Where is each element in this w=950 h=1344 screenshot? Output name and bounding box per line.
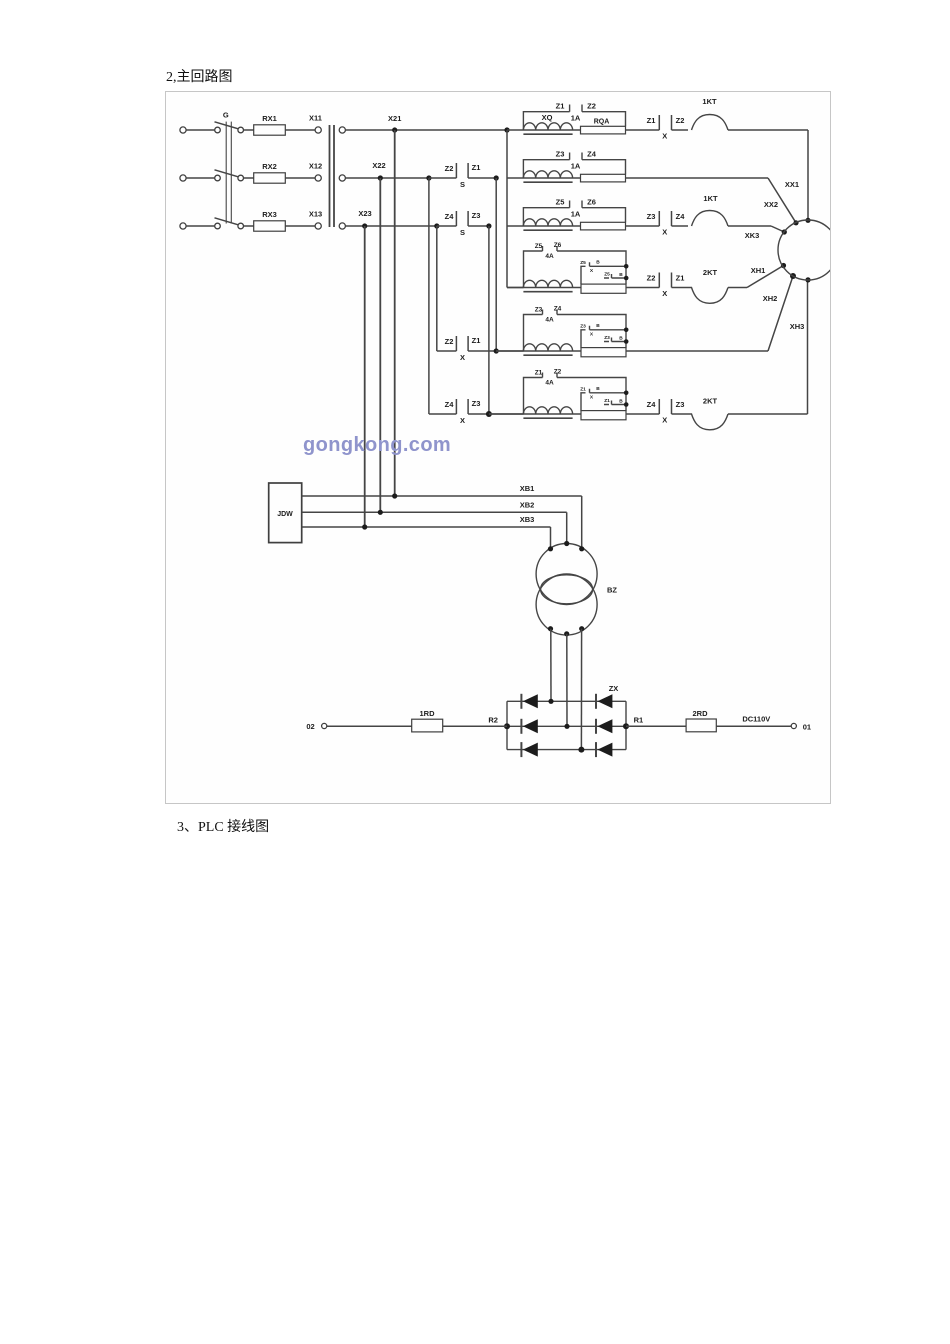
node R1 <box>623 723 629 729</box>
svg-text:Z1: Z1 <box>580 387 586 393</box>
svg-text:BZ: BZ <box>607 586 617 595</box>
node BZ b1 <box>548 626 553 631</box>
contact Z2/Z1 S <box>426 175 431 180</box>
wire <box>626 177 769 179</box>
transformer BZ <box>536 544 597 605</box>
svg-text:Z2: Z2 <box>445 164 454 173</box>
svg-text:Z1: Z1 <box>647 116 656 125</box>
wire <box>626 129 660 131</box>
wire <box>186 129 214 131</box>
node relay5 a <box>624 328 629 333</box>
wire <box>728 225 771 227</box>
switch contact 1 <box>238 127 244 133</box>
contact Z3/Z4 X row3 <box>658 211 660 226</box>
wire <box>285 177 315 179</box>
wire <box>626 225 660 227</box>
svg-text:1A: 1A <box>571 162 581 171</box>
node BZ b3 <box>579 626 584 631</box>
contact Z1/Z2 X row1 <box>658 115 660 130</box>
thermal element 1KT row3 <box>692 211 729 227</box>
terminal X22 <box>339 175 345 181</box>
svg-text:Z3: Z3 <box>647 212 656 221</box>
svg-text:Z3: Z3 <box>472 211 481 220</box>
contact Z4/Z3 X row6 <box>429 413 457 415</box>
wire XH2 diagonal <box>768 276 793 351</box>
wire <box>285 129 315 131</box>
svg-text:Z4: Z4 <box>445 400 455 409</box>
svg-text:RQA: RQA <box>594 119 610 126</box>
node relay5 b <box>624 339 629 344</box>
node motor XH3 <box>805 277 810 282</box>
wire <box>327 725 412 727</box>
wire row6 feed <box>489 413 524 415</box>
node motor XH1 <box>781 263 786 268</box>
wire <box>626 725 686 727</box>
svg-text:Z2: Z2 <box>554 369 562 376</box>
node BZ t1 <box>548 546 553 551</box>
switch hinge 2 <box>215 175 221 181</box>
svg-text:X: X <box>590 268 594 274</box>
winding V1 bypass+reactor <box>523 153 625 179</box>
svg-text:Z2: Z2 <box>587 102 596 111</box>
svg-text:B: B <box>596 386 600 392</box>
thermal element 2KT row6 <box>672 414 729 430</box>
node BZ b2 <box>564 631 569 636</box>
wire <box>626 413 659 415</box>
wire vert A (row2->row6) <box>428 178 430 414</box>
svg-text:Z3: Z3 <box>604 335 610 341</box>
wire <box>626 350 768 352</box>
node motor XX2 <box>793 220 798 225</box>
svg-text:1A: 1A <box>571 210 581 219</box>
motor M <box>778 220 838 280</box>
switch G blade 2 <box>215 170 239 177</box>
node relay6 a <box>624 391 629 396</box>
bridge frame <box>507 701 626 749</box>
svg-text:X12: X12 <box>309 161 322 170</box>
diode D-right-bot <box>598 743 613 757</box>
switch G linkage <box>225 122 227 224</box>
winding W1 bypass+reactor <box>523 201 625 227</box>
svg-text:XX1: XX1 <box>785 180 799 189</box>
svg-text:RX1: RX1 <box>262 114 277 123</box>
fuse 1RD <box>412 719 443 732</box>
svg-text:Z1: Z1 <box>472 163 481 172</box>
wire <box>285 225 315 227</box>
node relay4 b <box>624 276 629 281</box>
node XB3-X23 <box>362 524 367 529</box>
svg-text:R2: R2 <box>488 716 498 725</box>
node BZ t2 <box>564 541 569 546</box>
terminal L3 <box>180 223 186 229</box>
svg-text:XK3: XK3 <box>745 231 760 240</box>
diode D-right-top <box>598 694 613 708</box>
wire row2 <box>346 177 429 179</box>
svg-text:XH1: XH1 <box>751 266 766 275</box>
svg-text:1A: 1A <box>571 114 581 123</box>
wire <box>186 177 214 179</box>
svg-text:Z3: Z3 <box>580 324 586 330</box>
wire XH1 diagonal <box>728 287 747 289</box>
svg-text:X22: X22 <box>372 161 385 170</box>
svg-text:4A: 4A <box>545 253 554 260</box>
svg-text:4A: 4A <box>545 317 554 324</box>
node bridge bot <box>578 747 584 753</box>
svg-text:02: 02 <box>306 722 314 731</box>
contact Z2/Z1 X row5 <box>437 350 457 352</box>
svg-text:G: G <box>223 111 229 120</box>
svg-text:4A: 4A <box>545 380 554 387</box>
node relay4 a <box>624 264 629 269</box>
wire <box>566 512 568 543</box>
svg-text:Z5: Z5 <box>604 272 610 278</box>
svg-text:S: S <box>460 228 465 237</box>
node row5 left <box>494 348 499 353</box>
svg-text:XH3: XH3 <box>790 322 805 331</box>
svg-text:Z3: Z3 <box>535 307 543 314</box>
svg-text:Z5: Z5 <box>556 198 565 207</box>
node row2 right <box>494 175 499 180</box>
wire row1 <box>346 129 508 131</box>
thermal element 1KT row1 <box>692 115 729 131</box>
svg-text:1RD: 1RD <box>419 709 435 718</box>
winding W2 bypass+reactor+speed relay <box>524 373 627 415</box>
svg-text:Z3: Z3 <box>676 400 685 409</box>
wire <box>186 225 214 227</box>
node BZ t3 <box>579 546 584 551</box>
wire <box>716 725 791 727</box>
svg-text:X23: X23 <box>358 209 371 218</box>
contact Z4/Z3 S <box>434 223 439 228</box>
svg-text:Z1: Z1 <box>535 370 543 377</box>
wire <box>626 287 659 289</box>
svg-text:X: X <box>662 289 667 298</box>
svg-text:R1: R1 <box>634 716 644 725</box>
svg-text:JDW: JDW <box>277 511 293 518</box>
svg-text:X13: X13 <box>309 209 322 218</box>
svg-text:Z1: Z1 <box>676 274 685 283</box>
svg-text:X: X <box>460 416 465 425</box>
svg-text:Z4: Z4 <box>676 212 686 221</box>
wire row3 <box>346 225 437 227</box>
svg-text:Z5: Z5 <box>580 260 586 266</box>
wire <box>672 225 689 227</box>
wire <box>580 629 582 750</box>
diode D-left-mid <box>523 719 538 733</box>
wire XB2 <box>302 511 567 513</box>
wire <box>728 413 808 415</box>
terminal L2 <box>180 175 186 181</box>
svg-text:XX2: XX2 <box>764 200 778 209</box>
terminal L1 <box>180 127 186 133</box>
terminal 02 <box>322 723 327 728</box>
switch contact 3 <box>238 223 244 229</box>
wire <box>244 225 254 227</box>
node motor XK3 <box>782 229 787 234</box>
wire <box>443 725 507 727</box>
svg-text:XQ: XQ <box>542 113 553 122</box>
svg-text:2RD: 2RD <box>692 709 708 718</box>
fuse RX2 <box>254 173 286 183</box>
node motor XH2 <box>790 273 796 279</box>
winding U1 bypass+reactor XQ+resistor RQA <box>523 105 625 131</box>
diode D-right-mid <box>598 719 613 733</box>
diode D-left-bot <box>523 743 538 757</box>
svg-text:B: B <box>619 336 623 342</box>
terminal X21 <box>339 127 345 133</box>
svg-text:XH2: XH2 <box>763 294 778 303</box>
svg-text:1KT: 1KT <box>703 194 718 203</box>
node relay6 b <box>624 402 629 407</box>
svg-text:X: X <box>590 332 594 338</box>
svg-text:Z4: Z4 <box>647 400 657 409</box>
svg-text:X21: X21 <box>388 114 401 123</box>
node bridge top <box>548 699 553 704</box>
node row6 left <box>486 411 492 417</box>
wire vert C (row3->row6) <box>488 226 490 414</box>
svg-text:Z6: Z6 <box>554 242 562 249</box>
node X23 <box>362 223 367 228</box>
svg-text:Z4: Z4 <box>554 306 562 313</box>
wire <box>728 129 808 131</box>
node XB1-X21 <box>392 493 397 498</box>
switch hinge 1 <box>215 127 221 133</box>
node XB2-X22 <box>378 510 383 515</box>
switch G blade 1 <box>215 122 239 129</box>
svg-text:Z6: Z6 <box>587 198 596 207</box>
svg-text:Z1: Z1 <box>556 102 565 111</box>
wire XB3 <box>302 526 551 528</box>
svg-text:RX3: RX3 <box>262 210 277 219</box>
switch hinge 3 <box>215 223 221 229</box>
svg-text:DC110V: DC110V <box>742 714 770 723</box>
svg-text:X: X <box>662 132 667 141</box>
wire bus X21 down <box>394 130 396 496</box>
wire <box>244 129 254 131</box>
svg-text:B: B <box>619 399 623 405</box>
thermal element 2KT row4 <box>672 288 729 304</box>
wire <box>581 496 583 549</box>
winding V2 bypass+reactor+speed relay <box>524 310 627 352</box>
terminal X12 <box>315 175 321 181</box>
svg-text:XB1: XB1 <box>520 484 535 493</box>
node motor XX1 <box>805 218 810 223</box>
terminal X13 <box>315 223 321 229</box>
svg-text:Z3: Z3 <box>472 399 481 408</box>
contact Z4/Z3 X row6 <box>658 399 660 414</box>
svg-text:B: B <box>596 260 600 266</box>
wire vert D (row2->row5) <box>495 178 497 351</box>
wire <box>550 629 552 702</box>
svg-text:X: X <box>662 228 667 237</box>
fuse RX3 <box>254 221 286 231</box>
wire vert B (row3->row5) <box>436 226 438 351</box>
terminal X23 <box>339 223 345 229</box>
wire <box>672 129 689 131</box>
svg-text:B: B <box>596 323 600 329</box>
switch G blade 3 <box>215 218 239 225</box>
node bridge mid <box>564 724 569 729</box>
wire row4 feed <box>507 287 524 289</box>
node row3 right <box>486 223 491 228</box>
svg-text:Z3: Z3 <box>556 150 565 159</box>
svg-text:B: B <box>619 272 623 278</box>
svg-text:Z4: Z4 <box>445 212 455 221</box>
svg-text:Z2: Z2 <box>647 274 656 283</box>
svg-text:Z2: Z2 <box>676 116 685 125</box>
svg-text:1KT: 1KT <box>702 97 717 106</box>
wire XX2 diagonal <box>768 178 796 223</box>
node R2 <box>504 723 510 729</box>
wire bus X22 down <box>379 178 381 512</box>
svg-text:2KT: 2KT <box>703 397 718 406</box>
terminal strip bars <box>329 125 331 227</box>
svg-text:XB3: XB3 <box>520 515 535 524</box>
svg-text:2KT: 2KT <box>703 268 718 277</box>
svg-text:Z5: Z5 <box>535 243 543 250</box>
svg-text:XB2: XB2 <box>520 501 535 510</box>
wire row5 feed <box>496 350 523 352</box>
svg-text:Z2: Z2 <box>445 337 454 346</box>
fuse 2RD <box>686 719 716 732</box>
winding U2 bypass+reactor+speed relay <box>524 246 627 288</box>
svg-text:RX2: RX2 <box>262 162 277 171</box>
svg-text:X: X <box>662 416 667 425</box>
svg-text:X: X <box>460 353 465 362</box>
node X22 <box>378 175 383 180</box>
svg-text:Z4: Z4 <box>587 150 597 159</box>
svg-text:X11: X11 <box>309 113 322 122</box>
terminal X11 <box>315 127 321 133</box>
wire <box>566 634 568 727</box>
svg-text:X: X <box>590 395 594 401</box>
svg-text:Z1: Z1 <box>604 398 610 404</box>
contact Z2/Z1 X row4 <box>658 273 660 288</box>
wire XB1 <box>302 495 582 497</box>
switch contact 2 <box>238 175 244 181</box>
svg-text:Z1: Z1 <box>472 336 481 345</box>
wire vert E (row1->row4) <box>506 130 508 288</box>
svg-text:01: 01 <box>803 722 811 731</box>
svg-text:ZX: ZX <box>609 684 619 693</box>
fuse RX1 <box>254 125 286 135</box>
node row1-row4 tap <box>504 127 509 132</box>
terminal 01 <box>791 723 796 728</box>
svg-text:S: S <box>460 180 465 189</box>
block JDW <box>269 483 302 543</box>
wire <box>550 527 552 549</box>
wire bus X23 down <box>364 226 366 527</box>
diode D-left-top <box>523 694 538 708</box>
wire <box>244 177 254 179</box>
node X21 <box>392 127 397 132</box>
